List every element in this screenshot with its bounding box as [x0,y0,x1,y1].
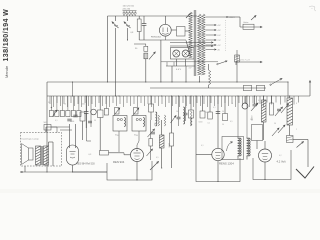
svg-text:6 0 V: 6 0 V [176,69,182,71]
svg-text:RENS 1204: RENS 1204 [219,162,234,166]
svg-text:0,1: 0,1 [201,145,204,147]
svg-text:0,2: 0,2 [279,155,282,157]
svg-text:Mende: Mende [4,65,9,78]
svg-text:1: 1 [243,157,244,159]
svg-text:0,5: 0,5 [156,157,159,159]
svg-text:zu Kl. 7 u. 8: zu Kl. 7 u. 8 [239,60,250,62]
svg-text:80: 80 [117,135,119,137]
svg-text:REN 904: REN 904 [113,160,125,164]
svg-text:5000: 5000 [199,122,203,124]
svg-text:~: ~ [311,7,313,11]
svg-text:110 125 150: 110 125 150 [123,6,135,8]
svg-text:0,2: 0,2 [258,100,261,102]
svg-text:138/180/194 W: 138/180/194 W [2,9,10,62]
svg-text:2: 2 [296,129,297,131]
svg-text:5000: 5000 [70,121,74,123]
svg-text:6: 6 [232,103,233,105]
svg-text:50: 50 [222,111,224,113]
svg-text:0,1: 0,1 [213,107,216,109]
svg-text:Dauermagn. Lautspr.: Dauermagn. Lautspr. [22,138,40,141]
svg-text:50: 50 [94,120,96,122]
svg-text:100: 100 [176,111,179,113]
svg-text:50: 50 [274,123,276,125]
svg-text:100: 100 [250,119,253,121]
svg-text:2000: 2000 [81,104,85,106]
svg-text:4,2 Volt: 4,2 Volt [277,160,286,164]
svg-text:10: 10 [64,104,66,106]
svg-text:8: 8 [296,103,297,105]
svg-text:0,5: 0,5 [230,121,233,123]
svg-text:50: 50 [222,124,224,126]
svg-text:30: 30 [48,102,50,104]
svg-text:5000: 5000 [205,112,209,114]
svg-text:80: 80 [136,135,138,137]
svg-text:RGN1064: RGN1064 [151,36,162,38]
svg-text:2: 2 [186,107,187,109]
svg-text:0,1: 0,1 [55,120,58,122]
svg-text:500: 500 [154,123,156,126]
svg-text:0,1: 0,1 [208,123,211,125]
svg-text:Urdox: Urdox [243,22,248,24]
svg-text:30: 30 [150,101,152,103]
svg-text:220 240: 220 240 [123,8,131,10]
svg-text:RES 964 Ref 503: RES 964 Ref 503 [76,163,95,166]
